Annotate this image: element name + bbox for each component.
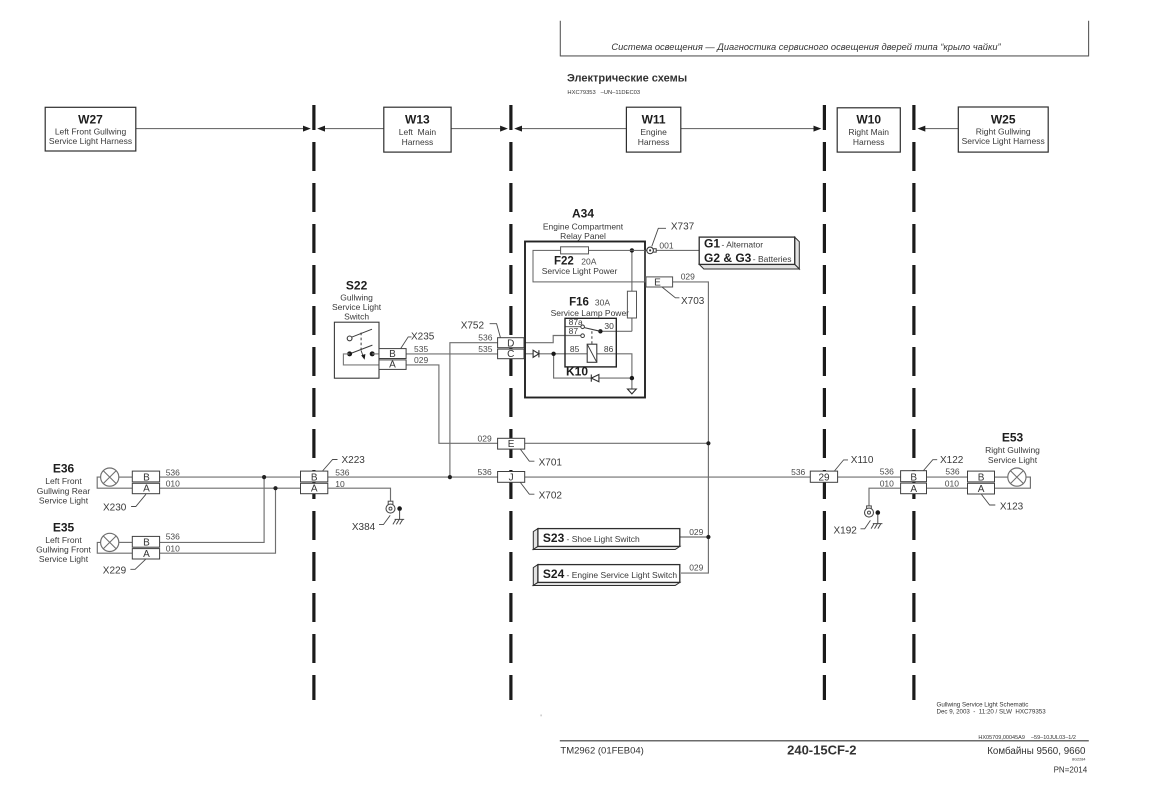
S22 actuator arrow xyxy=(361,351,363,356)
svg-text:S22: S22 xyxy=(346,279,368,293)
svg-text:Service Light: Service Light xyxy=(988,455,1038,465)
svg-text:536: 536 xyxy=(166,532,180,542)
svg-text:535: 535 xyxy=(414,344,428,354)
X703 label leader xyxy=(662,287,679,298)
wire 010 X122 A to X123 A xyxy=(927,487,968,489)
ground symbol under A34 xyxy=(628,389,637,394)
svg-text:010: 010 xyxy=(166,544,180,554)
svg-text:87: 87 xyxy=(569,326,579,336)
wire X123 B to E53 lamp xyxy=(995,476,1008,478)
svg-text:B: B xyxy=(389,349,396,360)
relay blade 87a to 30 xyxy=(584,328,600,332)
svg-text:86: 86 xyxy=(604,344,614,354)
wire 536 X702 J to X110 xyxy=(525,476,811,478)
lamp E35 xyxy=(36,521,119,564)
svg-text:W13: W13 xyxy=(405,113,430,127)
fuse F22 block xyxy=(533,247,645,282)
wire 001 X737 to G1 xyxy=(656,249,699,251)
svg-text:Комбайны 9560, 9660: Комбайны 9560, 9660 xyxy=(987,746,1086,757)
svg-text:Gullwing: Gullwing xyxy=(340,292,373,302)
wire coil 86 to riser and down xyxy=(597,354,632,378)
junction dot relay 30 terminal xyxy=(598,329,602,333)
svg-text:Switch: Switch xyxy=(344,311,369,321)
svg-text:Left Front Gullwing: Left Front Gullwing xyxy=(55,126,127,136)
relay panel A34 box xyxy=(525,207,645,398)
wire X752 C stub to diode xyxy=(524,353,533,355)
svg-text:G2 & G3: G2 & G3 xyxy=(704,251,752,265)
X384 label and leader xyxy=(379,515,390,524)
svg-text:B: B xyxy=(143,472,150,483)
dashed harness boundary line (right, x=913.9) xyxy=(912,105,915,700)
ground X384 chassis symbol xyxy=(399,511,401,520)
svg-text:X122: X122 xyxy=(940,455,964,466)
svg-text:F16: F16 xyxy=(569,296,589,308)
wire 010 X230 A to X223 A xyxy=(160,487,301,489)
svg-text:E53: E53 xyxy=(1002,430,1024,444)
switch S22 xyxy=(332,279,382,379)
relay 87a terminal xyxy=(581,325,585,329)
svg-text:029: 029 xyxy=(414,355,428,365)
svg-text:30A: 30A xyxy=(595,297,610,307)
svg-text:001: 001 xyxy=(659,240,673,250)
wire 029 riser from A34 E to S24 xyxy=(673,282,709,573)
harness W27 xyxy=(45,107,136,151)
S22 lower blade xyxy=(350,345,373,354)
svg-text:536: 536 xyxy=(880,467,894,477)
svg-text:X702: X702 xyxy=(539,491,563,502)
junction dot relay 85 branch xyxy=(551,352,555,356)
svg-text:E: E xyxy=(654,277,661,288)
dashed harness boundary line (x=510.9) xyxy=(509,105,512,700)
relay K10 box xyxy=(565,317,616,379)
lamp E53 xyxy=(985,430,1040,486)
harness W13 xyxy=(384,107,451,152)
svg-text:8G2284: 8G2284 xyxy=(1072,757,1086,761)
svg-text:029: 029 xyxy=(689,563,703,573)
svg-text:010: 010 xyxy=(166,479,180,489)
harness interconnect wires with arrows xyxy=(136,128,959,130)
X192 label and leader xyxy=(861,520,871,528)
svg-text:Service Light: Service Light xyxy=(39,554,89,564)
generator G1 / batteries 3D box xyxy=(699,236,799,269)
svg-text:85: 85 xyxy=(570,344,580,354)
connector X703 E cell xyxy=(646,272,705,308)
svg-text:X701: X701 xyxy=(539,458,563,469)
svg-text:Система освещения — Диагностик: Система освещения — Диагностика сервисно… xyxy=(611,42,1001,52)
svg-text:Service Lamp Power: Service Lamp Power xyxy=(551,308,630,318)
wire E36 lamp wrap to X230 A xyxy=(97,477,132,488)
svg-text:10: 10 xyxy=(335,479,345,489)
svg-text:536: 536 xyxy=(945,467,959,477)
svg-text:X235: X235 xyxy=(411,332,435,343)
svg-text:X110: X110 xyxy=(851,455,874,466)
wire 536 riser to X752 D xyxy=(450,343,498,477)
svg-text:X230: X230 xyxy=(103,502,127,513)
svg-text:A: A xyxy=(311,484,318,495)
svg-text:536: 536 xyxy=(478,333,492,343)
svg-text:Gullwing Rear: Gullwing Rear xyxy=(37,486,91,496)
relay actuator dashed xyxy=(591,331,593,344)
wire 536 X223 B to X702 J xyxy=(327,476,498,478)
wire 029 X701 E to riser xyxy=(525,442,709,444)
junction dot 029 at S23 row xyxy=(706,535,710,539)
svg-text:Harness: Harness xyxy=(853,137,885,147)
svg-text:PN=2014: PN=2014 xyxy=(1054,765,1088,774)
svg-text:W27: W27 xyxy=(78,113,103,127)
connector X235 xyxy=(379,332,435,371)
wire 001 junction to X737 xyxy=(645,249,647,251)
svg-text:029: 029 xyxy=(689,527,703,537)
svg-text:X192: X192 xyxy=(834,526,858,537)
svg-text:X229: X229 xyxy=(103,565,127,576)
ground X192 stud dot xyxy=(876,510,881,515)
svg-text:Service Light: Service Light xyxy=(332,302,382,312)
connector X752 xyxy=(461,321,524,360)
fuse F22 symbol xyxy=(561,247,589,254)
svg-text:G1: G1 xyxy=(704,236,720,250)
wire E53 lamp wrap to X123 A xyxy=(995,477,1031,488)
svg-text:Right Main: Right Main xyxy=(848,127,889,137)
svg-text:Harness: Harness xyxy=(402,137,434,147)
svg-text:029: 029 xyxy=(681,272,695,282)
svg-text:B: B xyxy=(143,538,150,549)
svg-text:X384: X384 xyxy=(352,522,376,533)
wire E35 lamp wrap to X229 A xyxy=(97,542,132,553)
svg-text:A34: A34 xyxy=(572,207,594,221)
fuse F16 symbol xyxy=(551,291,637,318)
svg-text:240-15CF-2: 240-15CF-2 xyxy=(787,742,856,757)
relay coil xyxy=(587,344,597,362)
wire X752 D into A34 to relay 87 xyxy=(524,336,581,343)
wire 536 X230 B to X223 B xyxy=(160,476,301,478)
switch S24 3D box xyxy=(533,563,703,586)
S22 contact dot right xyxy=(370,351,375,356)
dashed harness boundary line (x=824.4) xyxy=(823,105,826,700)
harness W10 xyxy=(837,108,900,152)
svg-text:Harness: Harness xyxy=(638,137,670,147)
arrowheads at harness boundaries xyxy=(303,126,925,132)
svg-text:X752: X752 xyxy=(461,321,485,332)
ground X384 ring terminal xyxy=(352,501,404,533)
wire 85 branch down to K10 diode xyxy=(554,354,591,378)
svg-text:E35: E35 xyxy=(53,521,75,535)
connector X110 xyxy=(810,455,874,483)
svg-text:Gullwing Service Light Schemat: Gullwing Service Light Schematic xyxy=(937,701,1029,708)
svg-text:W11: W11 xyxy=(642,113,666,127)
svg-text:X703: X703 xyxy=(681,296,705,307)
svg-text:Right Gullwing: Right Gullwing xyxy=(985,445,1040,455)
svg-text:30: 30 xyxy=(604,321,614,331)
ground X384 stud dot xyxy=(397,506,402,511)
svg-text:B: B xyxy=(311,472,318,483)
svg-text:Service Light Harness: Service Light Harness xyxy=(962,136,1045,146)
svg-text:Right Gullwing: Right Gullwing xyxy=(976,126,1031,136)
lamp E36 xyxy=(37,462,119,506)
connector X230 xyxy=(103,471,160,513)
S22 contact dot left xyxy=(347,351,352,356)
diode at X752 C input xyxy=(533,350,539,357)
junction dot 001 at A34 top xyxy=(630,248,634,252)
svg-text:536: 536 xyxy=(166,467,180,477)
svg-text:J: J xyxy=(509,472,514,483)
svg-text:A: A xyxy=(978,484,985,495)
S22 upper blade xyxy=(352,329,372,337)
wire K10 diode to 86 riser xyxy=(599,377,632,379)
S22 internal link wire to A xyxy=(343,354,379,365)
svg-text:E36: E36 xyxy=(53,462,75,476)
svg-text:HX05709,00045A9 –59–10JUL03: HX05709,00045A9 –59–10JUL03–1/2 xyxy=(978,735,1076,741)
svg-text:Left Main: Left Main xyxy=(399,127,437,137)
relay 87 terminal xyxy=(581,334,585,338)
svg-text:20A: 20A xyxy=(581,256,596,266)
connector X229 xyxy=(103,536,160,576)
svg-text:- Batteries: - Batteries xyxy=(753,254,792,264)
svg-text:A: A xyxy=(143,484,150,495)
junction dot E36/E35 010 xyxy=(273,486,277,490)
X737 label and leader xyxy=(652,228,666,246)
svg-text:X123: X123 xyxy=(1000,501,1024,512)
S22 pivot circle xyxy=(347,336,352,341)
svg-text:X737: X737 xyxy=(671,222,695,233)
svg-text:- Shoe Light Switch: - Shoe Light Switch xyxy=(567,534,641,544)
svg-text:536: 536 xyxy=(791,467,805,477)
svg-text:W25: W25 xyxy=(991,113,1016,127)
svg-text:W10: W10 xyxy=(856,113,881,127)
wire 536 X122 B to X123 B xyxy=(927,476,968,478)
connector X701 xyxy=(498,438,563,468)
svg-text:Электрические схемы: Электрические схемы xyxy=(567,73,687,85)
svg-text:A: A xyxy=(143,549,150,560)
svg-text:Service Light: Service Light xyxy=(39,495,89,505)
junction dot 029 at X701 row xyxy=(706,441,710,445)
wire relay 87a stub xyxy=(565,326,581,328)
svg-text:Left Front: Left Front xyxy=(45,476,82,486)
svg-text:Dec 9, 2003 - 11:20 / SLW H: Dec 9, 2003 - 11:20 / SLW HXC79353 xyxy=(937,709,1047,716)
ground X192 ring terminal xyxy=(834,506,883,537)
wire E36 lamp to X230 B xyxy=(97,250,1030,573)
wire diode to relay coil 85 xyxy=(539,353,587,355)
S22 actuator dashed link xyxy=(360,333,362,351)
diode K10 flyback xyxy=(591,375,599,382)
harness W25 xyxy=(958,107,1048,152)
wire E35 lamp to X229 B xyxy=(119,541,133,543)
junction dot 536 riser at J line xyxy=(448,475,452,479)
harness W11 xyxy=(626,107,680,152)
junction dot 86 riser bottom xyxy=(630,376,634,380)
wire 536 X229 B up to junction xyxy=(160,477,265,542)
wire 010 X229 A up to junction xyxy=(160,488,276,553)
tiny speck xyxy=(541,715,542,717)
connector X702 xyxy=(498,472,563,502)
wire relay 30 to F16 xyxy=(600,330,632,332)
svg-text:Engine Compartment: Engine Compartment xyxy=(543,222,624,232)
svg-text:X223: X223 xyxy=(342,455,366,466)
svg-text:C: C xyxy=(507,349,514,360)
footer rule xyxy=(560,740,1089,742)
svg-text:Service Light Power: Service Light Power xyxy=(542,266,618,276)
ground X192 chassis symbol xyxy=(877,515,879,524)
wire 536 X110 to X122 B xyxy=(838,476,901,478)
svg-text:K10: K10 xyxy=(566,365,588,379)
svg-text:D: D xyxy=(507,338,514,349)
svg-text:536: 536 xyxy=(335,467,349,477)
wire 010 X122 A to X192 ground xyxy=(869,488,901,506)
connector X123 xyxy=(968,471,1024,512)
svg-text:010: 010 xyxy=(880,478,894,488)
junction dot E36/E35 536 xyxy=(262,475,266,479)
svg-text:A: A xyxy=(389,360,396,371)
svg-text:B: B xyxy=(978,472,985,483)
svg-text:536: 536 xyxy=(478,467,492,477)
svg-text:TM2962 (01FEB04): TM2962 (01FEB04) xyxy=(560,746,643,757)
wire 029 X235 A to X701 E xyxy=(406,365,498,443)
connector X737 ring terminal xyxy=(647,222,695,254)
svg-text:010: 010 xyxy=(945,478,959,488)
S22 wire to B xyxy=(372,353,379,355)
svg-text:29: 29 xyxy=(818,472,830,483)
svg-text:- Alternator: - Alternator xyxy=(722,239,764,249)
svg-text:Engine: Engine xyxy=(640,127,667,137)
wire riser to ground xyxy=(631,378,633,389)
svg-text:- Engine Service Light Switch: - Engine Service Light Switch xyxy=(567,570,678,580)
svg-text:S24: S24 xyxy=(543,567,565,581)
svg-text:E: E xyxy=(508,439,515,450)
wire 535 X235 B to X752 C xyxy=(406,353,498,355)
wire 10 X223 A to X384 ground xyxy=(327,488,390,501)
connector X122 xyxy=(901,455,964,495)
connector X223 xyxy=(301,455,366,495)
svg-text:535: 535 xyxy=(478,344,492,354)
wire F16 vertical to 001 junction xyxy=(631,250,633,331)
svg-text:B: B xyxy=(910,472,917,483)
svg-text:HXC79353 –UN–11DEC03: HXC79353 –UN–11DEC03 xyxy=(567,90,640,96)
svg-text:A: A xyxy=(910,484,917,495)
svg-text:Service Light Harness: Service Light Harness xyxy=(49,136,132,146)
svg-text:Relay Panel: Relay Panel xyxy=(560,231,606,241)
dashed harness boundary line (left, x=313.9) xyxy=(312,105,315,700)
wire 029 S23 stub xyxy=(680,536,709,538)
svg-text:S23: S23 xyxy=(543,531,565,545)
svg-text:029: 029 xyxy=(478,433,492,443)
header box (title block) xyxy=(560,21,1089,56)
switch S23 3D box xyxy=(533,527,703,549)
